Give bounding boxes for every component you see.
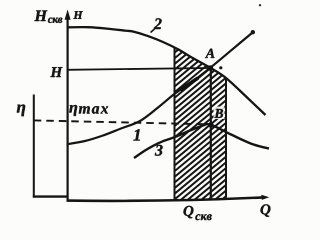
point A: [208, 65, 214, 71]
label eta: [17, 105, 25, 117]
dot right of A: [219, 66, 222, 69]
bottom connector from eta axis to H axis: [33, 195, 68, 197]
curve 3 efficiency characteristic: [134, 124, 269, 158]
curve 1 well characteristic through A: [68, 32, 253, 144]
label 1: [133, 129, 139, 140]
dashed eta_max level line: [34, 120, 208, 124]
curve 2 pump H-Q characteristic: [69, 27, 266, 115]
label Q_skv: [184, 206, 212, 220]
label 3: [155, 145, 163, 156]
Q_skv ordinate through A and B: [210, 67, 212, 198]
white halo behind label B: [214, 107, 225, 120]
bulged tip of curve 1: [251, 30, 255, 34]
speck top right: [259, 4, 261, 6]
hatched recommended operating zone: [0, 28, 320, 212]
point B: [208, 122, 213, 127]
label H_skv: [34, 11, 62, 23]
eta axis: [33, 95, 35, 198]
label B: [214, 109, 223, 118]
label eta_max: [69, 105, 108, 116]
thick segment of curve 1 inside hatch: [180, 78, 198, 90]
label H left: [50, 67, 62, 77]
label 2 with leader tick: [151, 18, 162, 32]
Q axis with arrow: [67, 195, 270, 201]
vertical axis H with arrow: [65, 10, 71, 202]
hatch zone right boundary: [225, 78, 227, 198]
hatch zone left boundary: [174, 47, 176, 200]
H level line to point A: [68, 68, 209, 70]
label A: [205, 49, 215, 58]
label Q axis: [261, 204, 271, 216]
label H top: [73, 11, 82, 18]
